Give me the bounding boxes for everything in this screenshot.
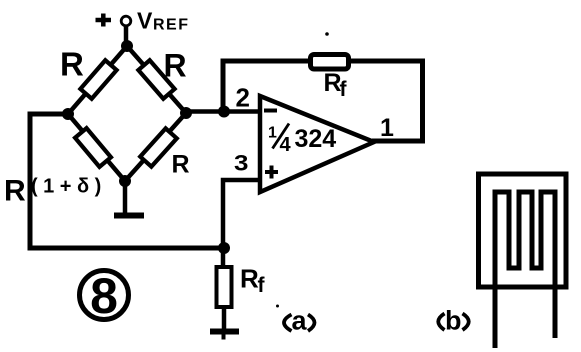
svg-text:R: R <box>172 151 190 179</box>
svg-text:R: R <box>60 46 84 83</box>
svg-text:f: f <box>258 274 266 297</box>
svg-text:1: 1 <box>380 114 394 142</box>
svg-text:f: f <box>340 78 348 101</box>
svg-text:(1+δ): (1+δ) <box>31 176 107 198</box>
svg-text:1: 1 <box>268 125 277 142</box>
svg-text:8: 8 <box>90 268 118 324</box>
svg-text:2: 2 <box>236 83 250 113</box>
svg-text:324: 324 <box>295 125 337 153</box>
svg-text:b: b <box>445 306 462 336</box>
svg-text:4: 4 <box>280 134 292 156</box>
svg-text:V: V <box>137 8 153 34</box>
svg-text:REF: REF <box>153 17 190 34</box>
svg-text:R: R <box>164 48 187 84</box>
svg-text:R: R <box>240 264 259 294</box>
svg-text:3: 3 <box>234 151 248 176</box>
svg-text:R: R <box>4 175 26 208</box>
svg-text:a: a <box>292 306 308 336</box>
